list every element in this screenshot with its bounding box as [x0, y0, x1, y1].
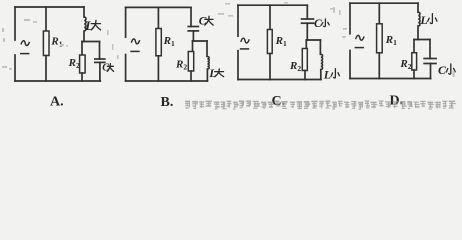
- source D: AC source symbol ~: [356, 35, 364, 40]
- wire: C R1 top lead: [269, 5, 271, 29]
- wire: D parallel top bar: [414, 39, 430, 41]
- wire: B left lower: [125, 55, 127, 82]
- wire: D left upper: [349, 3, 351, 34]
- wire: C left upper: [237, 5, 239, 36]
- resistor R1 (A): [43, 31, 49, 56]
- wire: A left upper: [14, 7, 16, 40]
- svg-text:C: C: [199, 16, 207, 28]
- svg-text:C: C: [438, 63, 447, 77]
- wire: B inductor bottom lead: [206, 69, 208, 81]
- wire: D top rail: [350, 2, 418, 4]
- source A: AC source symbol ~: [21, 41, 29, 46]
- wire: D inductor top lead: [417, 3, 419, 12]
- label XIAO for C (C): [322, 19, 330, 27]
- wire: B capacitor bottom lead: [192, 31, 194, 41]
- wire: D R1 bottom lead: [378, 53, 380, 79]
- inductor L (B): [207, 57, 209, 70]
- capacitor C (A): [94, 59, 106, 62]
- svg-text:C: C: [314, 18, 322, 30]
- source B: AC source lower bar: [130, 50, 139, 52]
- label XIAO for C (D): [446, 64, 455, 74]
- wire: C parallel top bar: [306, 39, 320, 41]
- source A: AC source lower bar: [20, 53, 29, 55]
- svg-text:L: L: [84, 18, 93, 33]
- wire: D R2 bottom lead: [413, 70, 415, 79]
- wire: D capacitor bottom lead: [430, 64, 432, 79]
- resistor R1 (C): [267, 30, 272, 54]
- resistor R2 (D): [412, 53, 417, 70]
- faint speckles: [2, 2, 455, 77]
- wire: A R2 top lead: [81, 42, 83, 56]
- svg-text:C: C: [102, 62, 109, 73]
- wire: D inductor bottom lead: [417, 26, 419, 40]
- inductor L (A): [84, 17, 86, 31]
- label XIAO for L (C): [331, 69, 339, 78]
- wire: D bottom rail: [350, 78, 431, 80]
- resistor R1 (B): [156, 29, 161, 56]
- wire: B top rail: [126, 6, 191, 8]
- wire: B parallel top bar: [193, 40, 208, 42]
- wire: C R2 bottom lead: [304, 71, 306, 80]
- label XIAO for L (D): [428, 14, 437, 24]
- source B: AC source symbol ~: [131, 39, 139, 44]
- svg-text:B.: B.: [161, 95, 174, 110]
- wire: B capacitor top lead: [190, 7, 192, 26]
- source D: AC source lower bar: [355, 47, 364, 49]
- wire: A inductor top lead: [83, 7, 85, 17]
- wire: B bottom rail: [126, 80, 208, 82]
- circuit B: [126, 7, 224, 110]
- source C: AC source symbol ~: [241, 38, 249, 43]
- wire: D left lower: [349, 51, 351, 79]
- wire: A bottom rail: [15, 80, 100, 82]
- label DA for L (A): [91, 20, 100, 30]
- wire: C inductor bottom lead: [320, 70, 322, 80]
- wire: C left lower: [237, 51, 239, 80]
- capacitor C (B): [187, 27, 199, 31]
- resistor R2 (B): [188, 52, 193, 72]
- wire: D R1 top lead: [378, 3, 380, 24]
- wire: C R1 bottom lead: [269, 54, 271, 80]
- label DA for C (B): [205, 16, 213, 25]
- wire: D capacitor top lead: [429, 40, 431, 59]
- resistor R1 (D): [377, 24, 383, 53]
- label DA for L (B): [215, 69, 224, 77]
- wire: B R1 top lead: [157, 7, 159, 28]
- resistor R2 (A): [80, 55, 86, 73]
- label DA for C (A): [107, 64, 113, 72]
- wire: A parallel top bar: [82, 41, 100, 43]
- wire: A capacitor top lead: [99, 42, 101, 60]
- wire: C capacitor top lead: [306, 5, 308, 19]
- wire: A R1 top lead: [45, 7, 47, 31]
- svg-text:L: L: [323, 67, 331, 81]
- wire: A capacitor bottom lead: [99, 62, 101, 81]
- wire: A left lower: [14, 55, 16, 81]
- wire: C R2 top lead: [305, 40, 307, 49]
- wire: B R2 bottom lead: [190, 71, 192, 81]
- inductor L (C): [321, 54, 323, 69]
- faint bleed-through text row (decorative, drawn as gray blocks): [185, 100, 456, 109]
- inductor L (D): [418, 12, 420, 26]
- wire: C capacitor bottom lead: [306, 23, 308, 40]
- circuit C: [238, 5, 339, 109]
- capacitor C (D): [423, 59, 437, 64]
- wire: D R2 top lead: [413, 40, 415, 53]
- wire: A top rail: [15, 6, 84, 8]
- wire: C inductor top lead: [319, 40, 321, 54]
- wire: A R1 bottom lead: [45, 56, 47, 82]
- circuit A: [15, 7, 114, 110]
- wire: B R2 top lead: [192, 41, 194, 52]
- wire: A R2 bottom lead: [81, 73, 83, 81]
- wire: B inductor top lead: [206, 41, 208, 57]
- capacitor C (C): [301, 19, 315, 23]
- source C: AC source lower bar: [240, 48, 249, 50]
- svg-text:L: L: [419, 13, 427, 27]
- wire: B left upper: [125, 7, 127, 37]
- wire: C top rail: [238, 4, 307, 6]
- circuit D: [350, 3, 455, 108]
- resistor R2 (C): [302, 49, 307, 71]
- wire: A inductor bottom lead: [83, 31, 85, 42]
- wire: C bottom rail: [238, 79, 321, 81]
- svg-text:A.: A.: [50, 95, 64, 110]
- svg-text:L: L: [208, 66, 216, 80]
- wire: B R1 bottom lead: [157, 56, 159, 81]
